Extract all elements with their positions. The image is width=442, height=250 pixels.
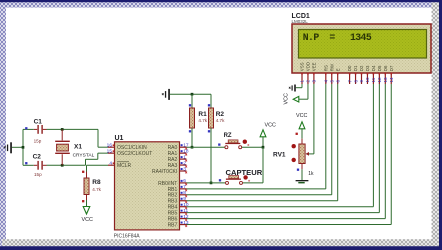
capacitor C2 (23, 164, 34, 166)
svg-text:C1: C1 (34, 119, 43, 126)
svg-text:RV1: RV1 (273, 151, 286, 158)
svg-text:D2: D2 (359, 65, 364, 71)
svg-text:4: 4 (324, 80, 329, 83)
svg-text:RB7: RB7 (168, 222, 178, 228)
svg-text:6: 6 (183, 178, 186, 184)
pin 18 (180, 152, 187, 154)
svg-text:D6: D6 (383, 65, 388, 71)
svg-text:14: 14 (389, 77, 394, 83)
wire (313, 84, 315, 154)
crystal X1 (61, 129, 63, 140)
svg-text:2: 2 (306, 80, 311, 83)
wire (187, 182, 226, 184)
svg-text:1k: 1k (308, 171, 314, 177)
node A (22, 146, 25, 149)
svg-text:VCC: VCC (265, 123, 276, 129)
pin 14 D7 (390, 73, 392, 84)
svg-text:4.7k: 4.7k (198, 118, 207, 123)
pin 11 D4 (372, 73, 374, 84)
pin 17 (180, 146, 187, 148)
pin 4 (108, 164, 115, 166)
pin 2 VDD (307, 73, 309, 84)
pin 11 (180, 212, 187, 214)
wire (187, 218, 386, 220)
pin 9 (180, 200, 187, 202)
svg-text:RS: RS (323, 65, 328, 71)
svg-text:D1: D1 (353, 65, 358, 71)
svg-text:15p: 15p (34, 139, 42, 144)
LCD screen (299, 30, 427, 59)
svg-text:D3: D3 (365, 65, 370, 71)
pin 5 RW (331, 73, 333, 84)
svg-text:D5: D5 (377, 65, 382, 71)
pin 12 D5 (378, 73, 380, 84)
svg-text:15p: 15p (34, 172, 42, 177)
wire (301, 84, 303, 88)
svg-text:VEE: VEE (312, 62, 317, 71)
svg-text:8: 8 (353, 80, 358, 83)
pin 3 (180, 170, 187, 172)
resistor R1 (191, 94, 193, 108)
ground (296, 180, 309, 181)
svg-text:D7: D7 (389, 65, 394, 71)
svg-text:7: 7 (183, 184, 186, 190)
pin 4 RS (325, 73, 327, 84)
power VCC (left) (293, 96, 299, 102)
svg-text:RA4/T0CKI: RA4/T0CKI (152, 169, 177, 175)
svg-text:15: 15 (107, 148, 113, 154)
wire (187, 146, 225, 148)
svg-text:10: 10 (365, 77, 370, 83)
svg-text:=: = (329, 32, 335, 43)
svg-text:MCLR: MCLR (117, 163, 132, 169)
svg-text:5: 5 (329, 80, 334, 83)
svg-text:4.7k: 4.7k (216, 118, 225, 123)
wire (187, 194, 332, 196)
ground (294, 85, 296, 92)
node B (61, 128, 64, 131)
svg-text:9: 9 (359, 80, 364, 83)
svg-text:13: 13 (383, 77, 388, 83)
svg-text:C2: C2 (33, 154, 42, 161)
pin 6 (180, 182, 187, 184)
svg-text:RW: RW (329, 63, 334, 71)
wire (187, 188, 326, 190)
svg-text:P: P (313, 32, 319, 43)
pin 13 D6 (384, 73, 386, 84)
pin 2 (180, 164, 187, 166)
wire (47, 164, 86, 166)
svg-text:VCC: VCC (296, 113, 307, 119)
svg-text:1: 1 (300, 80, 305, 83)
svg-text:3: 3 (312, 80, 317, 83)
pin 10 (180, 206, 187, 208)
microcontroller U1 (115, 142, 180, 230)
node D (191, 93, 194, 96)
svg-text:11: 11 (371, 77, 376, 82)
svg-text:PIC16F84A: PIC16F84A (114, 233, 141, 239)
svg-text:R1: R1 (198, 111, 207, 118)
svg-text:VCC: VCC (82, 217, 93, 223)
capacitor C1 (23, 128, 34, 130)
pin 1 VSS (301, 73, 303, 84)
pin 7 D0 (349, 73, 351, 84)
svg-text:CRYSTAL: CRYSTAL (73, 152, 95, 158)
node G (262, 146, 265, 149)
wire (187, 212, 380, 214)
svg-text:5: 5 (366, 32, 372, 43)
svg-text:E: E (335, 68, 340, 71)
svg-text:D4: D4 (371, 65, 376, 71)
wire (87, 164, 109, 166)
wire (187, 206, 374, 208)
svg-text:3: 3 (183, 166, 186, 172)
svg-text:1: 1 (183, 154, 186, 160)
pin 7 (180, 188, 187, 190)
pin 16 (108, 146, 115, 148)
svg-text:VSS: VSS (300, 62, 305, 71)
pin 8 (180, 194, 187, 196)
node C (61, 164, 64, 167)
pin 3 VEE (313, 73, 315, 84)
wire (47, 128, 99, 130)
pin 9 D2 (361, 73, 363, 84)
wire (242, 146, 263, 148)
svg-text:OSC2/CLKOUT: OSC2/CLKOUT (117, 151, 152, 157)
svg-text:RZ: RZ (224, 133, 232, 139)
svg-text:VCC: VCC (284, 93, 290, 104)
wire (301, 164, 303, 170)
ground (168, 89, 170, 100)
svg-text:16: 16 (107, 142, 113, 148)
svg-text:7: 7 (347, 80, 352, 83)
node F (210, 182, 213, 185)
svg-text:X1: X1 (74, 144, 82, 151)
svg-text:D0: D0 (347, 65, 352, 71)
svg-text:18: 18 (183, 148, 189, 154)
svg-text:VDD: VDD (306, 62, 311, 71)
pin 13 (180, 224, 187, 226)
ground (12, 146, 23, 148)
svg-text:8: 8 (183, 190, 186, 196)
svg-text:6: 6 (335, 80, 340, 83)
node E (191, 146, 194, 149)
power VCC (down) (86, 200, 88, 207)
resistor R2 (210, 94, 212, 108)
svg-text:4.7k: 4.7k (92, 187, 101, 192)
pin 15 (108, 152, 115, 154)
wire (22, 129, 24, 165)
wire (262, 147, 264, 183)
svg-text:12: 12 (377, 77, 382, 83)
svg-text:4: 4 (109, 160, 112, 166)
pin 12 (180, 218, 187, 220)
pin 1 (180, 158, 187, 160)
resistor R8 (86, 172, 88, 179)
wire (307, 84, 309, 99)
pin 10 D3 (366, 73, 368, 84)
svg-text:2: 2 (183, 160, 186, 166)
svg-text:U1: U1 (115, 135, 124, 142)
svg-text:9: 9 (183, 196, 186, 202)
wire (187, 200, 338, 202)
svg-text:R8: R8 (92, 179, 101, 186)
svg-text:R2: R2 (216, 111, 225, 118)
pin 6 E (337, 73, 339, 84)
wire (170, 93, 211, 95)
wire (187, 224, 392, 226)
pin 8 D1 (355, 73, 357, 84)
